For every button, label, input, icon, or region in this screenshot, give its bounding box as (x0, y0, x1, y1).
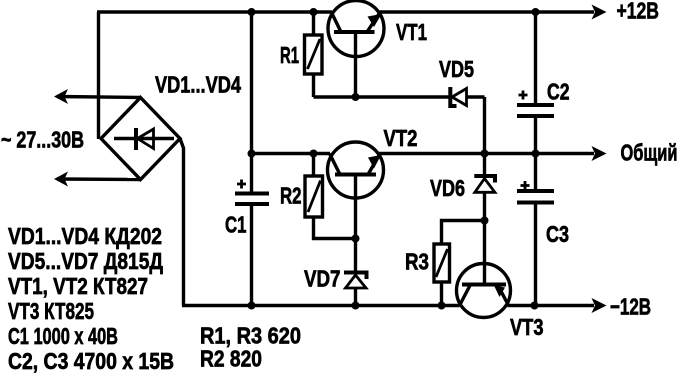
wire bridge minus output drop to bottom rail (180, 139, 184, 306)
zener VD7 triangle (346, 275, 367, 288)
transistor VT3 base lead (483, 221, 486, 285)
resistor R3 diagonal mark (436, 249, 448, 277)
junction top rail x=252 (248, 8, 256, 16)
svg-text:C3: C3 (546, 221, 569, 247)
wire C2 top lead (534, 12, 537, 105)
junction VT3 base node (481, 217, 489, 225)
wire top +12V rail right segment (379, 10, 594, 13)
svg-text:VD1...VD4: VD1...VD4 (155, 72, 241, 98)
capacitor C1 plus sign (237, 180, 246, 189)
resistor R2 (305, 176, 323, 217)
transistor VT2 collector (330, 154, 341, 175)
bridge rectifier VD1...VD4 diamond (101, 98, 180, 180)
transistor VT3 emitter (498, 285, 509, 306)
svg-text:C1 1000 x 40В: C1 1000 x 40В (8, 323, 118, 349)
transistor VT1 emitter arrowhead (368, 14, 382, 27)
wire VD5 corner drop to common rail (483, 97, 486, 154)
transistor VT1 base lead (354, 32, 357, 97)
junction C3 bottom rail (531, 302, 539, 310)
capacitor C2 top plate (517, 103, 554, 107)
junction VT1 base node (352, 93, 360, 101)
transistor VT2 circle (328, 142, 384, 198)
svg-text:+12В: +12В (617, 0, 660, 24)
capacitor C2 plus sign (519, 91, 528, 100)
wire main vertical rail x=252 upper (250, 12, 253, 194)
wire R1 top lead (312, 12, 315, 35)
wire common rail right segment (379, 152, 594, 155)
bridge inner diode wire (114, 137, 174, 140)
svg-text:R3: R3 (405, 249, 429, 275)
arrow common output (592, 146, 607, 161)
svg-text:VD7: VD7 (304, 266, 341, 292)
svg-text:VT3 КТ825: VT3 КТ825 (8, 298, 94, 324)
wire VD6 anode lead (483, 192, 486, 220)
junction common rail x=252 (248, 150, 256, 158)
transistor VT2 emitter (368, 155, 380, 175)
wire left vertical from top rail to bridge (97, 12, 100, 139)
svg-text:R2: R2 (280, 183, 302, 209)
transistor VT1 emitter (367, 13, 380, 32)
junction VT2 base node (352, 235, 360, 243)
wire C2 bottom lead (534, 116, 537, 154)
wire bottom -12V rail right segment (508, 304, 595, 307)
junction R1 top rail (310, 8, 318, 16)
svg-text:VT3: VT3 (510, 314, 544, 340)
transistor VT3 circle (457, 264, 511, 318)
wire VD5 anode to corner (467, 95, 485, 98)
transistor VT2 base bar (335, 173, 376, 177)
transistor VT2 emitter arrowhead (368, 155, 381, 169)
capacitor C1 bottom plate (235, 202, 269, 206)
transistor VT2 base lead (354, 175, 357, 239)
transistor VT1 circle (328, 1, 384, 57)
svg-text:VT1: VT1 (396, 19, 427, 45)
svg-text:~ 27...30В: ~ 27...30В (1, 127, 84, 153)
arrow AC input top (54, 89, 68, 104)
transistor VT1 collector (332, 13, 342, 33)
resistor R3 (434, 244, 450, 282)
wire R2 bottom lead (314, 217, 356, 239)
zener VD6 cathode bar with hook (474, 176, 495, 183)
junction C2 common rail (532, 150, 540, 158)
junction VD5 common rail (481, 150, 489, 158)
zener VD6 triangle (475, 179, 495, 193)
wire top +12V rail left segment (97, 10, 332, 13)
junction R2 top common rail (310, 150, 318, 158)
svg-text:VT1, VT2 КТ827: VT1, VT2 КТ827 (8, 273, 148, 299)
transistor VT3 collector (460, 285, 471, 306)
wire R1 bottom lead (312, 74, 315, 97)
svg-text:VD5...VD7 Д815Д: VD5...VD7 Д815Д (8, 248, 163, 274)
capacitor C2 bottom plate (517, 114, 554, 118)
wire VD7 anode lead (354, 288, 357, 306)
resistor R1 diagonal mark (308, 39, 321, 69)
transistor VT1 base bar (334, 30, 375, 34)
capacitor C1 top plate (235, 192, 269, 196)
wire VT1 base node horizontal (314, 95, 450, 98)
wire main vertical rail x=252 lower (250, 204, 253, 306)
junction C2 top rail (532, 8, 540, 16)
wire C3 top lead (534, 154, 537, 192)
wire AC input bottom arrow line (57, 177, 141, 181)
capacitor C3 plus sign (521, 181, 530, 190)
wire bottom -12V rail left segment (182, 304, 460, 307)
wire common rail left segment (252, 152, 331, 155)
wire VD6 top lead (483, 154, 486, 177)
svg-text:VD5: VD5 (439, 56, 474, 82)
arrow -12V output (592, 298, 607, 313)
svg-text:C2: C2 (547, 79, 570, 105)
svg-text:VD6: VD6 (430, 175, 465, 201)
svg-text:Общий: Общий (621, 140, 678, 166)
transistor VT3 base bar (462, 283, 506, 287)
capacitor C3 bottom plate (517, 201, 554, 205)
wire R2 top lead (312, 154, 315, 177)
wire C3 bottom lead (534, 203, 537, 306)
zener VD5 triangle (452, 89, 467, 106)
svg-text:R1: R1 (280, 42, 299, 68)
arrow +12V output (592, 5, 607, 20)
svg-text:C2, C3 4700 x 15В: C2, C3 4700 x 15В (8, 348, 174, 374)
svg-text:−12В: −12В (610, 294, 651, 320)
svg-text:R2 820: R2 820 (200, 346, 262, 372)
wire R3 bottom lead (440, 282, 443, 306)
bridge inner diode triangle (138, 129, 154, 149)
svg-text:VD1...VD4 КД202: VD1...VD4 КД202 (8, 223, 162, 249)
resistor R2 diagonal mark (308, 181, 321, 213)
transistor VT3 emitter arrowhead (494, 286, 505, 298)
zener VD7 cathode bar with hook (344, 273, 367, 280)
junction VD7 bottom rail (352, 302, 360, 310)
junction R3 bottom rail (438, 302, 446, 310)
zener VD5 cathode bar with hook (450, 87, 456, 106)
capacitor C3 top plate (517, 189, 554, 193)
wire VD7 top lead (354, 239, 357, 273)
bridge inner diode cathode bar (134, 128, 138, 150)
resistor R1 (305, 35, 323, 74)
wire AC input top arrow line (57, 97, 141, 98)
svg-text:VT2: VT2 (384, 125, 418, 151)
junction bottom rail x=252 (248, 302, 256, 310)
wire R3 top lead (442, 221, 485, 245)
svg-text:C1: C1 (225, 212, 247, 238)
arrow AC input bottom (54, 172, 68, 187)
